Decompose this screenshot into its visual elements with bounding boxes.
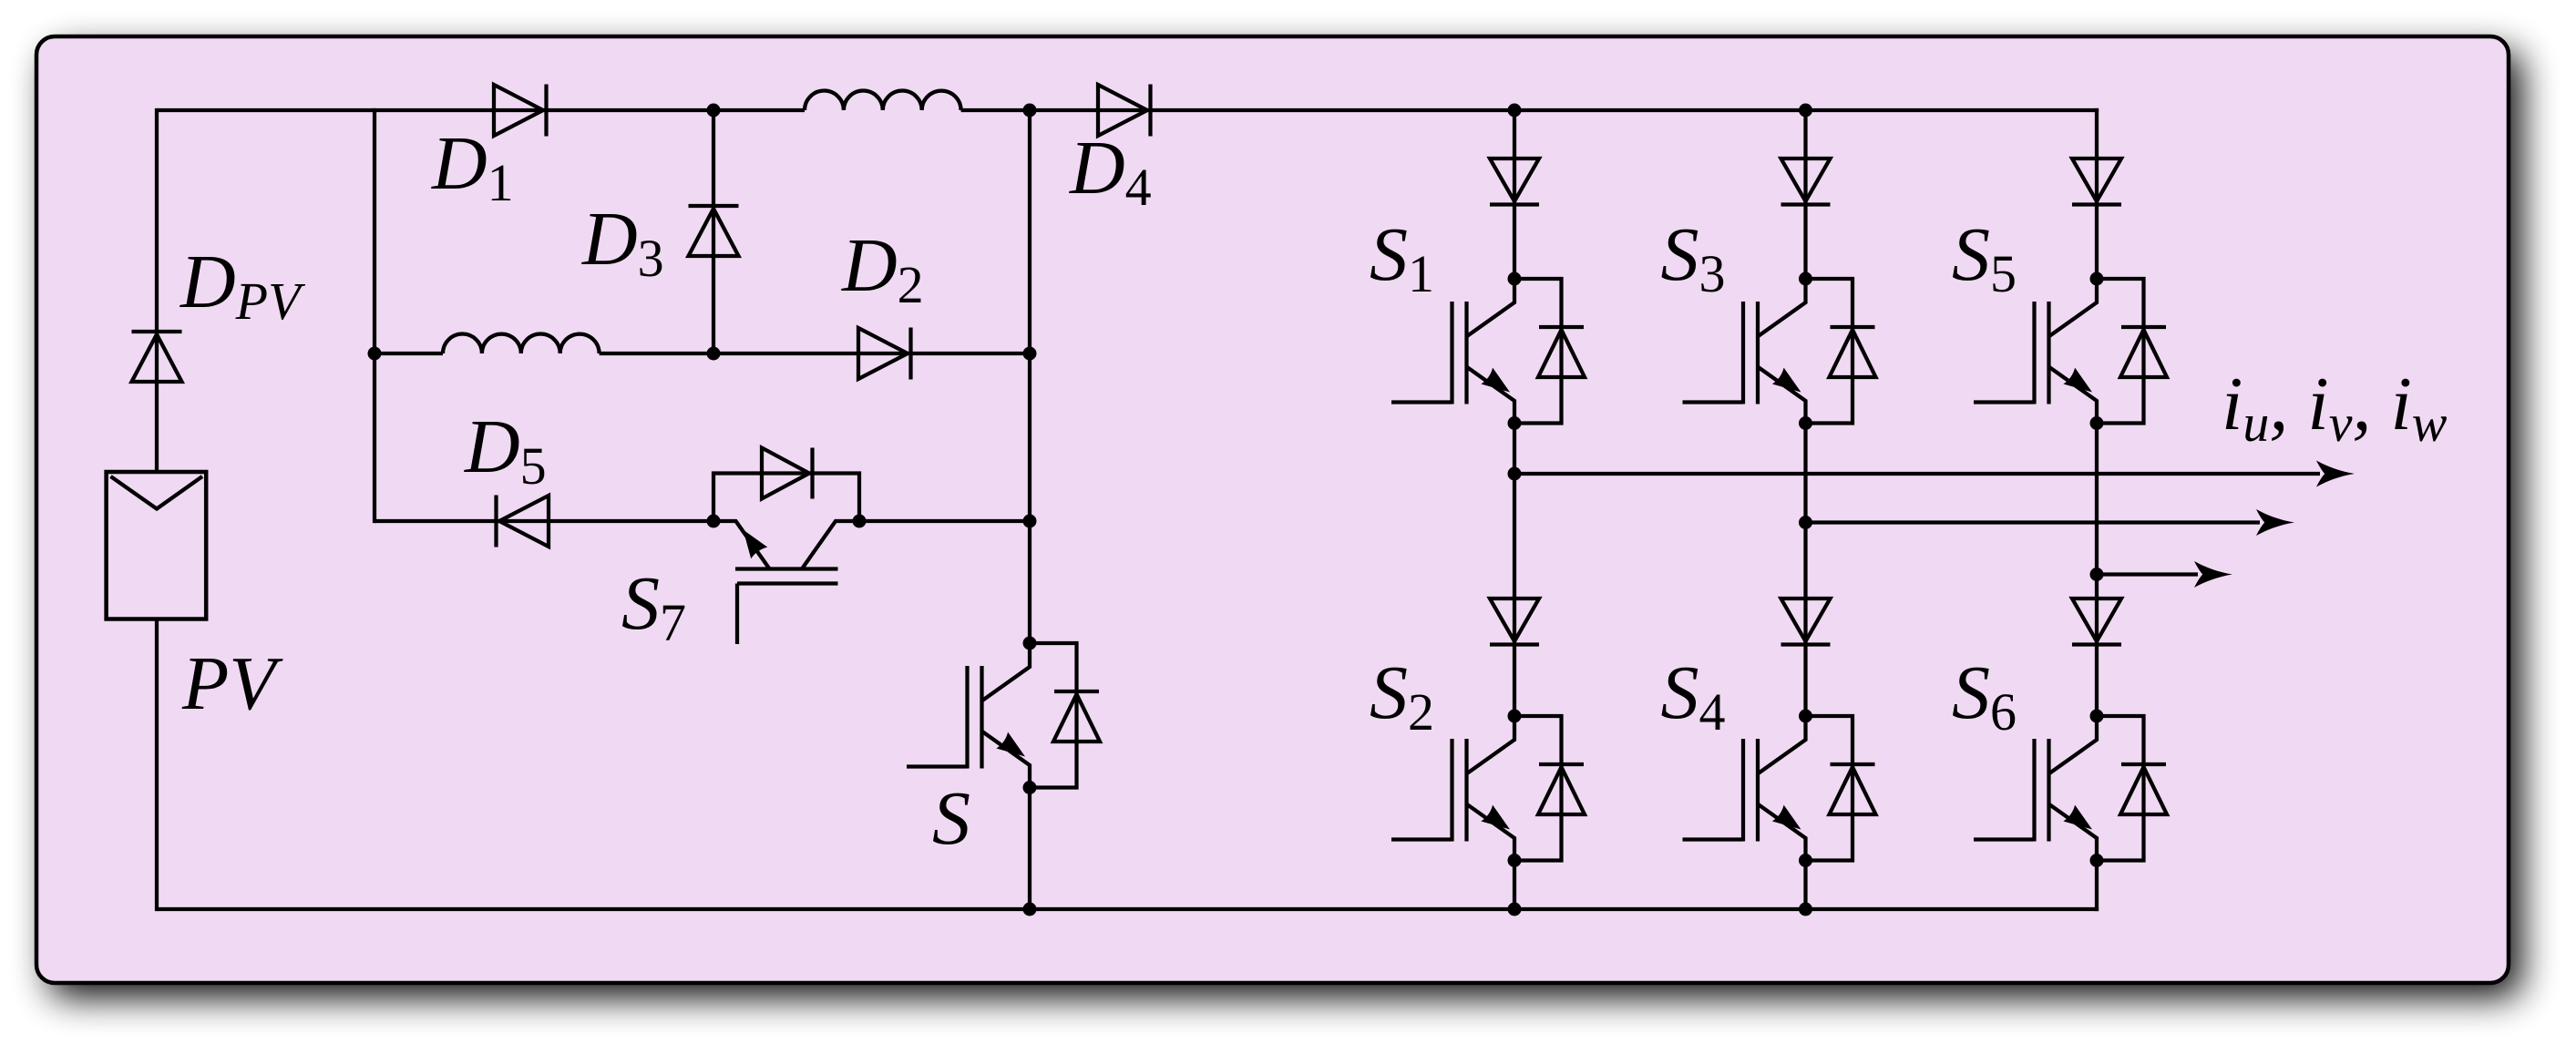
node: top rail / boost junction [1023,104,1037,118]
wire: leg 2 phase segment [1803,424,1807,717]
node: emitter of S6 [2090,854,2104,867]
node: collector of S1 [1508,272,1522,286]
node: phase tap 1 [1508,467,1522,481]
antiparallel diode of S4 [1806,716,1853,861]
transistor S5 (IGBT) [2049,279,2097,336]
wire: leg 1 phase segment [1513,424,1516,717]
antiparallel diode of S6 [2097,716,2144,861]
antiparallel diode of S7 [713,474,859,522]
node: middle rail / D3 [707,347,721,361]
transistor S6 (IGBT) [2049,716,2097,773]
antiparallel diode of S [1030,643,1077,788]
PV panel [107,472,207,619]
wire: center vertical D5row to S [1028,521,1031,643]
wire: leg 3 top lead [2095,108,2099,279]
wire: D3 branch [712,110,715,353]
node: emitter of S7 [707,515,721,528]
node: top rail / D3 junction [707,104,721,118]
node: collector of S4 [1799,710,1812,723]
node: middle rail left [368,347,382,361]
diode D3 [689,209,739,256]
diode D5 [499,496,549,547]
transistor S4 (IGBT) [1759,716,1806,773]
series diode above S2 [1490,599,1539,641]
wire: top rail inductor to inverter [961,108,2099,112]
wire: leg 3 phase segment [2095,424,2099,717]
wire: leg 2 to bottom rail [1803,861,1807,910]
node: bottom rail / leg1 [1508,903,1522,916]
wire: center vertical top-mid [1028,110,1031,353]
series diode above S4 [1781,599,1831,641]
wire: S7 to center vertical [859,519,1030,523]
node: collector of S2 [1508,710,1522,723]
node: top rail / leg2 [1799,104,1812,118]
wire: S emitter to bottom rail [1028,788,1031,910]
wire: phase v output with arrow [1806,520,2261,524]
antiparallel diode of S1 [1514,279,1562,424]
wire: D5 row [375,519,713,523]
node: collector of S3 [1799,272,1812,286]
inductor L1 (middle) [443,334,600,353]
antiparallel diode of S2 [1514,716,1562,861]
node: collector of S [1023,637,1037,650]
wire: leg 1 top lead [1513,110,1516,279]
wire: bottom rail [157,907,2099,911]
node: middle rail / center vertical [1023,347,1037,361]
node: collector of S5 [2090,272,2104,286]
node: bottom rail / leg2 [1799,903,1812,916]
node: emitter of S4 [1799,854,1812,867]
transistor S (IGBT) [982,643,1030,701]
diode D4 [1098,85,1147,136]
node: collector of S6 [2090,710,2104,723]
wire: middle rail to inductor [375,352,443,355]
antiparallel diode of S5 [2097,279,2144,424]
transistor S7 (IGBT, horizontal) [802,521,859,569]
diode DPV [132,334,182,382]
transistor S2 (IGBT) [1467,716,1514,773]
node: D5 row / center vertical [1023,515,1037,528]
series diode above S1 [1490,159,1539,201]
node: phase tap 2 [1799,516,1812,529]
node: emitter of S2 [1508,854,1522,867]
node: emitter of S5 [2090,416,2104,430]
node: collector of S7 [853,515,867,528]
wire: leg 3 to bottom rail [2095,861,2099,912]
svg-text:S: S [932,776,970,861]
node: phase tap 3 [2090,568,2104,581]
node: emitter of S [1023,781,1037,794]
series diode above S6 [2072,599,2121,641]
diode D2 [858,328,908,379]
wire: PV panel to bottom rail [155,619,159,912]
wire: phase w output with arrow [2097,572,2198,576]
wire: center vertical mid-D5row [1028,353,1031,521]
series diode above S3 [1781,159,1831,201]
inductor L2 (top) [805,91,961,110]
wire: leg 2 top lead [1803,110,1807,279]
wire: second vertical [373,108,376,523]
diode D1 [494,85,543,136]
wire: top rail left segment [157,108,805,112]
svg-text:PV: PV [181,641,283,726]
node: emitter of S1 [1508,416,1522,430]
node: emitter of S3 [1799,416,1812,430]
node: top rail / leg1 [1508,104,1522,118]
series diode above S5 [2072,159,2121,201]
antiparallel diode of S3 [1806,279,1853,424]
transistor S1 (IGBT) [1467,279,1514,336]
transistor S3 (IGBT) [1759,279,1806,336]
wire: middle rail inductor to center vertical [600,352,1030,355]
wire: phase u output with arrow [1514,472,2320,476]
wire: PV top to top rail [155,108,159,472]
node: bottom rail / S leg [1023,903,1037,916]
wire: leg 1 to bottom rail [1513,861,1516,910]
